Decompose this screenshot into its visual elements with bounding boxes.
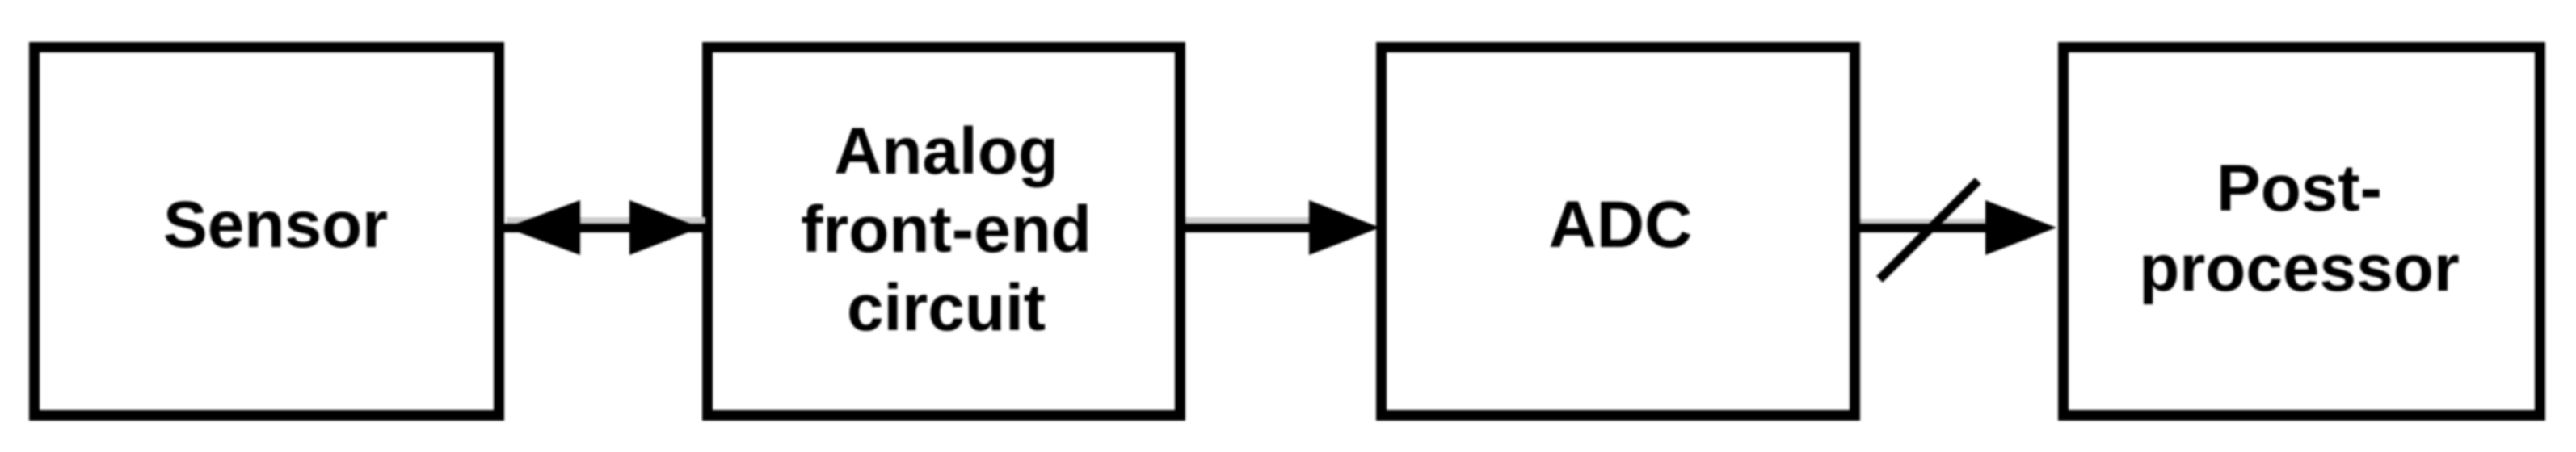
arrowhead: into Post-processor [1985, 200, 2056, 255]
bus-width slash on ADC output [1879, 181, 1978, 279]
wire: ghost band above AFE-ADC shaft [1185, 217, 1315, 224]
block: Post-processor box [2058, 42, 2545, 421]
label: Sensor [38, 186, 513, 265]
label: Analog front-end circuit [705, 112, 1188, 347]
block: Sensor box [29, 42, 504, 421]
arrowhead: right (into AFE) [629, 200, 701, 255]
arrowhead: left (into Sensor) [506, 200, 580, 255]
wire: Sensor to AFE bidirectional shaft [497, 224, 709, 232]
wire: ADC to Post-processor shaft [1855, 224, 1993, 232]
wire: ghost band above Sensor-AFE shaft [507, 217, 705, 224]
label: ADC [1378, 186, 1863, 265]
wire: AFE to ADC shaft [1176, 224, 1313, 232]
block: ADC box [1376, 42, 1860, 421]
wire: ghost band above ADC-Post shaft [1860, 219, 1989, 225]
arrowhead: into ADC [1309, 200, 1380, 255]
block: Analog front-end circuit box [702, 42, 1185, 421]
label: Post-processor [2056, 149, 2543, 308]
